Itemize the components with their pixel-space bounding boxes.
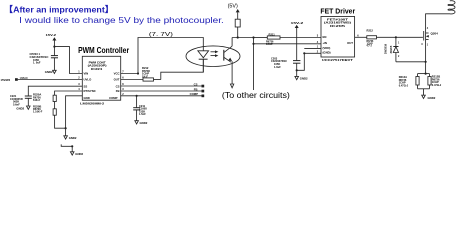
svg-text:IC224: IC224 xyxy=(91,67,103,71)
wire FET VDD xyxy=(304,47,321,49)
svg-text:I would like to change 5V by t: I would like to change 5V by the photoco… xyxy=(19,15,224,25)
svg-text:GND2: GND2 xyxy=(300,77,308,81)
svg-text:1CHP: 1CHP xyxy=(266,43,273,46)
svg-text:COMP: COMP xyxy=(190,92,199,96)
node junction gate/zener xyxy=(395,36,397,38)
svg-text:(To other circuits): (To other circuits) xyxy=(222,91,290,100)
svg-text:GND2: GND2 xyxy=(75,152,83,156)
node junction C203 bottom xyxy=(296,69,298,71)
svg-text:15V-2: 15V-2 xyxy=(46,33,57,37)
svg-text:4.7-J: 4.7-J xyxy=(367,45,373,48)
wire VCC pin to rail xyxy=(121,73,138,75)
ground GND2 under C203 xyxy=(295,70,308,80)
svg-text:(VDD): (VDD) xyxy=(323,46,331,50)
svg-text:4: 4 xyxy=(427,27,429,30)
svg-text:OUT: OUT xyxy=(114,78,120,82)
svg-text:1: 1 xyxy=(398,43,400,45)
resistor R220A xyxy=(33,93,56,102)
svg-text:(GND): (GND) xyxy=(323,51,331,55)
node junction rail xyxy=(425,73,427,75)
node FB flag xyxy=(194,87,204,92)
wire R220B to ground rail xyxy=(55,115,66,128)
svg-text:(5V): (5V) xyxy=(228,3,238,9)
wire gate xyxy=(396,36,423,38)
power flag 5V xyxy=(228,3,240,19)
svg-text:COMP: COMP xyxy=(109,96,118,100)
resistor R212B xyxy=(428,74,442,89)
node junction at 15V rail xyxy=(53,46,55,48)
wire down to sense resistors xyxy=(425,62,427,74)
wire UVLO to pin2 xyxy=(18,79,83,81)
svg-text:GND2: GND2 xyxy=(69,136,77,140)
inductor L1 coil xyxy=(440,1,455,14)
wire to other circuits arrow xyxy=(230,84,233,88)
svg-text:2: 2 xyxy=(398,56,400,58)
resistor R211 xyxy=(254,32,322,46)
light arrows xyxy=(211,50,219,57)
wire SS pin3 to C221 xyxy=(28,86,82,96)
svg-text:RT/SYNC: RT/SYNC xyxy=(84,89,96,93)
wire CS line xyxy=(121,85,202,87)
ground GND2 under C221 xyxy=(16,106,30,111)
svg-text:PWM Controller: PWM Controller xyxy=(78,45,130,55)
ground GND2 under C211 xyxy=(135,121,148,125)
LED D1 of photocoupler xyxy=(198,51,209,72)
wire +IN line xyxy=(254,43,322,45)
wire zener bottom to source xyxy=(396,61,426,63)
svg-text:15V/W2: 15V/W2 xyxy=(1,78,11,82)
svg-text:DW2016: DW2016 xyxy=(384,43,388,54)
svg-text:3: 3 xyxy=(78,83,80,86)
resistor R212A xyxy=(399,74,419,89)
svg-text:ZD205: ZD205 xyxy=(389,45,393,53)
capacitor C221 xyxy=(10,94,32,106)
capacitor C211 xyxy=(133,96,147,121)
svg-text:R212: R212 xyxy=(367,29,374,33)
node junction GND pin xyxy=(303,52,305,54)
svg-text:SS: SS xyxy=(84,84,88,88)
ground GND2 below rail xyxy=(64,128,77,140)
ground GND2 below stub xyxy=(70,146,83,156)
svg-text:CS: CS xyxy=(116,84,120,88)
svg-text:LM5020MM-2: LM5020MM-2 xyxy=(80,101,104,105)
wire 5V node horizontal xyxy=(232,37,253,39)
svg-text:FB: FB xyxy=(194,87,198,91)
wire sense rail bottom xyxy=(418,88,430,90)
node junction on stub xyxy=(71,145,73,147)
wire sense rail top xyxy=(418,73,430,75)
svg-text:1.5nF: 1.5nF xyxy=(139,112,146,116)
svg-text:GND2: GND2 xyxy=(45,70,53,74)
svg-text:15V-2: 15V-2 xyxy=(291,21,304,25)
wire source down xyxy=(425,43,427,62)
svg-text:GND: GND xyxy=(84,96,90,100)
svg-text:UVLO: UVLO xyxy=(84,78,93,82)
node junction branch xyxy=(252,36,254,38)
zener ZD205 xyxy=(384,37,401,62)
svg-text:UCC27517DBVT: UCC27517DBVT xyxy=(322,58,353,62)
svg-text:0.47Ω-J: 0.47Ω-J xyxy=(399,83,409,87)
svg-text:OUT: OUT xyxy=(347,41,353,45)
svg-text:Q204: Q204 xyxy=(431,32,439,36)
wire FET OUT to gate xyxy=(355,36,367,38)
capacitor C223 xyxy=(30,47,59,71)
photocoupler PC201 body xyxy=(186,46,240,67)
wire between R220A and R220B xyxy=(54,102,56,109)
wire FET GND return xyxy=(297,53,321,70)
node junction VCC xyxy=(137,72,139,74)
resistor R210 pull-up xyxy=(235,19,240,37)
node junction 5V-R xyxy=(237,36,239,38)
wire FB line xyxy=(121,90,202,92)
node junction source xyxy=(425,61,427,63)
svg-text:CS: CS xyxy=(194,82,198,86)
svg-text:GND2: GND2 xyxy=(140,121,148,125)
svg-text:FB: FB xyxy=(116,89,120,93)
power flag 15V-2 (left) xyxy=(46,33,57,47)
svg-text:VCC: VCC xyxy=(114,72,120,76)
wire branch down to other circuits xyxy=(253,38,255,91)
node CS flag xyxy=(194,82,205,87)
svg-text:1.0uF: 1.0uF xyxy=(274,65,281,69)
wire standalone ground stub xyxy=(61,144,72,146)
resistor R220B xyxy=(33,104,56,115)
capacitor C203 xyxy=(271,56,300,70)
ground GND2 under sense resistors xyxy=(422,89,436,100)
svg-text:GND2: GND2 xyxy=(428,96,436,100)
wire PWM GND pin to rail xyxy=(66,96,83,128)
svg-text:1. 0uF: 1. 0uF xyxy=(33,61,41,65)
resistor R212 (LED series) xyxy=(121,66,161,81)
svg-text:3: 3 xyxy=(421,43,423,46)
wire 7.7V rail xyxy=(138,38,203,74)
power flag 15V-2 (right) xyxy=(291,21,304,60)
svg-text:+IN: +IN xyxy=(323,41,327,45)
node junction COMP cap xyxy=(136,95,138,97)
svg-text:61K-F: 61K-F xyxy=(33,98,41,102)
wire VIN from rail to PWM pin1 xyxy=(54,47,82,74)
wire RT/SYNC pin4 to resistor chain xyxy=(55,91,83,95)
wire drain to coil xyxy=(426,14,440,30)
op-amp U1 PWM controller IC224 xyxy=(78,45,130,105)
node UVLO net flag xyxy=(1,76,29,82)
op-amp U2 FET driver IC205 xyxy=(317,9,360,63)
wire COMP line xyxy=(121,95,202,97)
transistor Q1 of photocoupler xyxy=(224,38,232,85)
transistor Q204 xyxy=(421,27,438,47)
svg-text:FET Driver: FET Driver xyxy=(320,9,355,16)
svg-text:VIN: VIN xyxy=(84,72,89,76)
node junction at ground rail xyxy=(65,127,67,129)
wire LED cathode return xyxy=(161,59,204,79)
svg-text:0.47Ω-J: 0.47Ω-J xyxy=(432,83,442,87)
svg-text:1: 1 xyxy=(427,44,429,47)
node COMP flag xyxy=(190,92,205,97)
node junction +IN xyxy=(252,43,254,45)
ground GND2 under C223 xyxy=(45,70,56,74)
svg-text:1.10K-F: 1.10K-F xyxy=(33,110,43,114)
svg-text:【After an improvement】: 【After an improvement】 xyxy=(4,4,114,14)
resistor R212 gate xyxy=(367,29,396,48)
svg-text:GND2: GND2 xyxy=(16,107,24,111)
svg-text:IC205: IC205 xyxy=(330,25,346,28)
svg-text:EN: EN xyxy=(323,35,327,39)
